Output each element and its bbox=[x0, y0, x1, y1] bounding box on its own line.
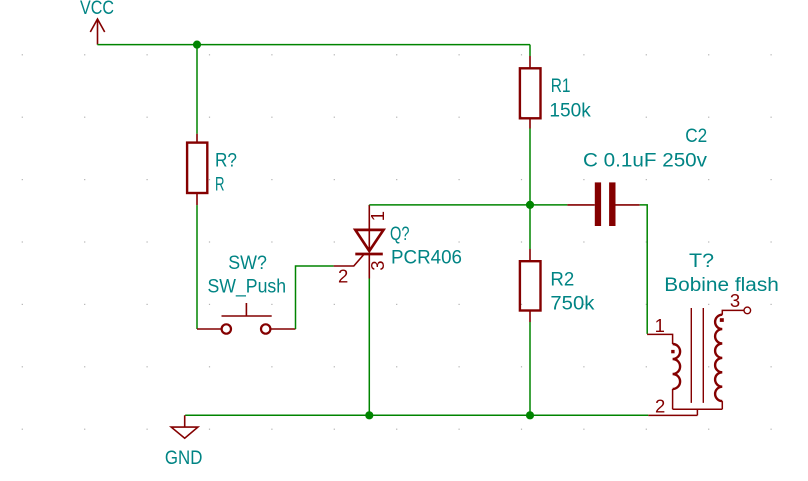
wire mid junction to R2 bbox=[529, 205, 531, 249]
svg-text:C 0.1uF 250v: C 0.1uF 250v bbox=[583, 151, 708, 172]
wire switch right pin up and over to gate bbox=[296, 266, 334, 329]
svg-text:1: 1 bbox=[367, 211, 388, 221]
primary winding arcs bbox=[673, 344, 681, 389]
core lines bbox=[691, 308, 703, 403]
wire anode rail y=205 from thyristor to junction bbox=[369, 204, 530, 206]
svg-text:750k: 750k bbox=[550, 294, 595, 315]
junction cathode bottom bbox=[365, 411, 373, 419]
svg-text:R?: R? bbox=[215, 151, 237, 172]
wire top rail corner down to R1 bbox=[529, 45, 531, 56]
cathode pin 3 bbox=[368, 254, 370, 279]
svg-text:C2: C2 bbox=[685, 126, 707, 147]
svg-text:VCC: VCC bbox=[80, 0, 114, 19]
secondary winding arcs bbox=[715, 315, 722, 401]
svg-text:PCR406: PCR406 bbox=[391, 248, 462, 269]
triangle bbox=[355, 230, 383, 251]
ground symbol GND bbox=[171, 415, 198, 438]
svg-text:3: 3 bbox=[367, 261, 388, 271]
wire cathode down to bottom rail bbox=[368, 279, 370, 416]
svg-text:Q?: Q? bbox=[390, 224, 410, 245]
resistor R? bbox=[187, 134, 207, 205]
svg-text:T?: T? bbox=[689, 251, 714, 272]
wire top rail VCC to R1 column bbox=[97, 44, 530, 46]
svg-text:150k: 150k bbox=[549, 101, 591, 122]
wire R2 bottom to bottom rail bbox=[529, 322, 531, 415]
wire capacitor to transformer column bbox=[640, 205, 648, 334]
transformer T? Bobine flash bbox=[647, 307, 751, 415]
thyristor Q? PCR406 bbox=[334, 205, 384, 279]
resistor R2 bbox=[520, 249, 541, 322]
junction R2 bottom bbox=[526, 411, 534, 419]
wire R? bottom down to switch left pin bbox=[196, 205, 198, 329]
svg-text:1: 1 bbox=[655, 315, 665, 336]
svg-text:R1: R1 bbox=[551, 76, 571, 97]
bottom joining bar pin 2 bbox=[648, 409, 722, 415]
switch SW? SW_Push bbox=[197, 303, 296, 334]
svg-text:2: 2 bbox=[655, 396, 665, 417]
junction at R? column on top rail bbox=[193, 41, 201, 49]
resistor R1 bbox=[520, 56, 541, 129]
wire R1 bottom to mid junction bbox=[529, 129, 531, 205]
svg-text:SW_Push: SW_Push bbox=[208, 277, 287, 298]
svg-text:R2: R2 bbox=[550, 270, 574, 291]
power symbol VCC bbox=[90, 19, 104, 45]
svg-text:SW?: SW? bbox=[228, 253, 267, 274]
capacitor C2 bbox=[567, 182, 639, 226]
junction mid node bbox=[526, 201, 534, 209]
svg-text:R: R bbox=[215, 175, 225, 196]
wire bottom rail bbox=[185, 414, 648, 416]
svg-text:GND: GND bbox=[165, 448, 203, 469]
pin 3 open end circle bbox=[744, 307, 751, 314]
cathode bar bbox=[355, 253, 383, 256]
polarity dot primary bbox=[671, 350, 674, 353]
wire mid junction to capacitor bbox=[530, 204, 567, 206]
anode pin 1 bbox=[368, 205, 370, 251]
gate pin 2 bbox=[334, 255, 364, 267]
secondary winding pin 3 bbox=[722, 310, 743, 409]
wire from top rail down to R? bbox=[196, 45, 198, 134]
primary winding pin 1 bbox=[647, 334, 673, 409]
svg-text:2: 2 bbox=[338, 265, 348, 286]
polarity dot secondary bbox=[720, 318, 724, 322]
svg-text:Bobine flash: Bobine flash bbox=[664, 275, 779, 296]
